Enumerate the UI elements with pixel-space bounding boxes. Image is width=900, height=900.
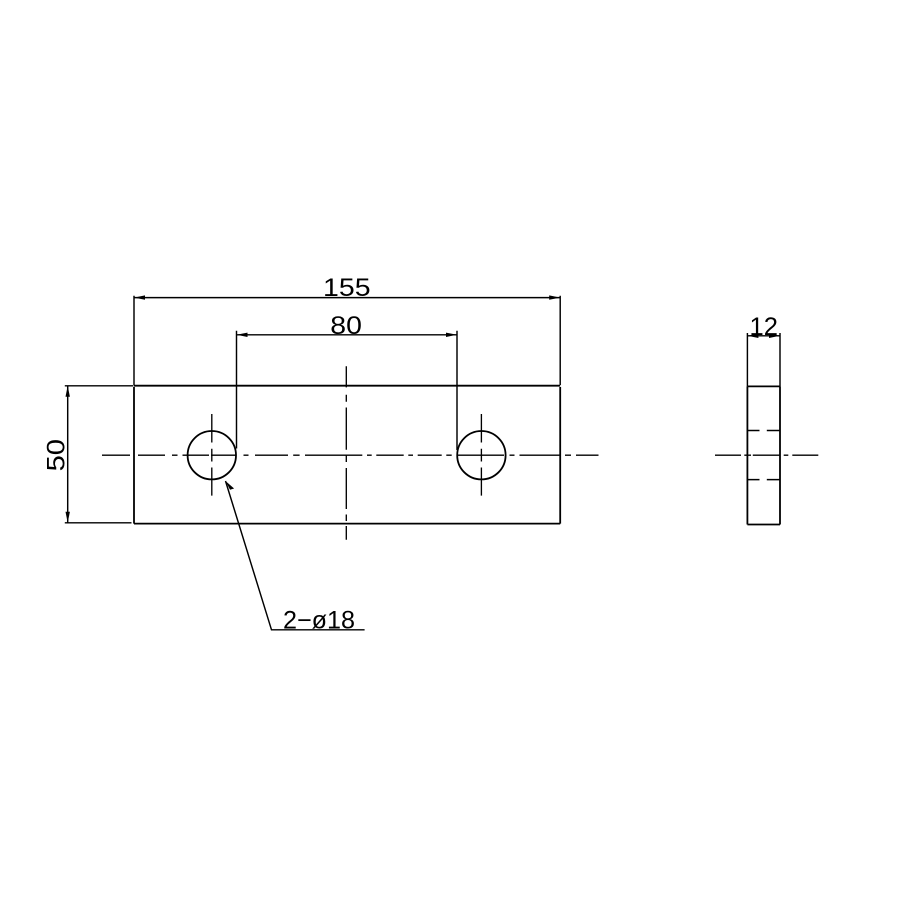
vertical centerline right hole [480,414,482,496]
arrowhead 12 left [747,334,758,338]
hole left ø18 [188,431,236,479]
horizontal centerline front view [102,454,599,456]
vertical centerline mid plate [345,366,347,540]
svg-text:12: 12 [750,313,778,341]
svg-text:80: 80 [330,312,362,340]
hidden line hole top (side view) [747,430,780,432]
arrowhead 80 left [237,333,248,337]
arrowhead 155 right [549,295,560,299]
svg-text:2−ø18: 2−ø18 [283,606,355,634]
leader line to left hole [226,481,365,630]
horizontal centerline side view [715,454,818,456]
hole right ø18 [457,431,505,479]
dimension 80 extension and dimension lines [237,331,458,450]
arrowhead 80 right [446,333,457,337]
dimension 50 extension and dimension lines [65,386,134,523]
arrowhead 12 right [769,334,780,338]
arrowhead 50 top [66,386,70,397]
front view plate outline [134,386,560,524]
side view plate outline [747,386,780,524]
svg-text:50: 50 [43,439,71,471]
hidden line hole bottom (side view) [747,479,780,481]
svg-text:155: 155 [323,274,371,302]
arrowhead 50 bottom [66,512,70,523]
arrowhead 155 left [134,295,145,299]
dimension 155 extension and dimension lines [134,296,560,385]
dimension 12 extension and dimension lines [747,333,780,386]
vertical centerline left hole [211,414,213,496]
leader arrowhead [226,481,235,490]
